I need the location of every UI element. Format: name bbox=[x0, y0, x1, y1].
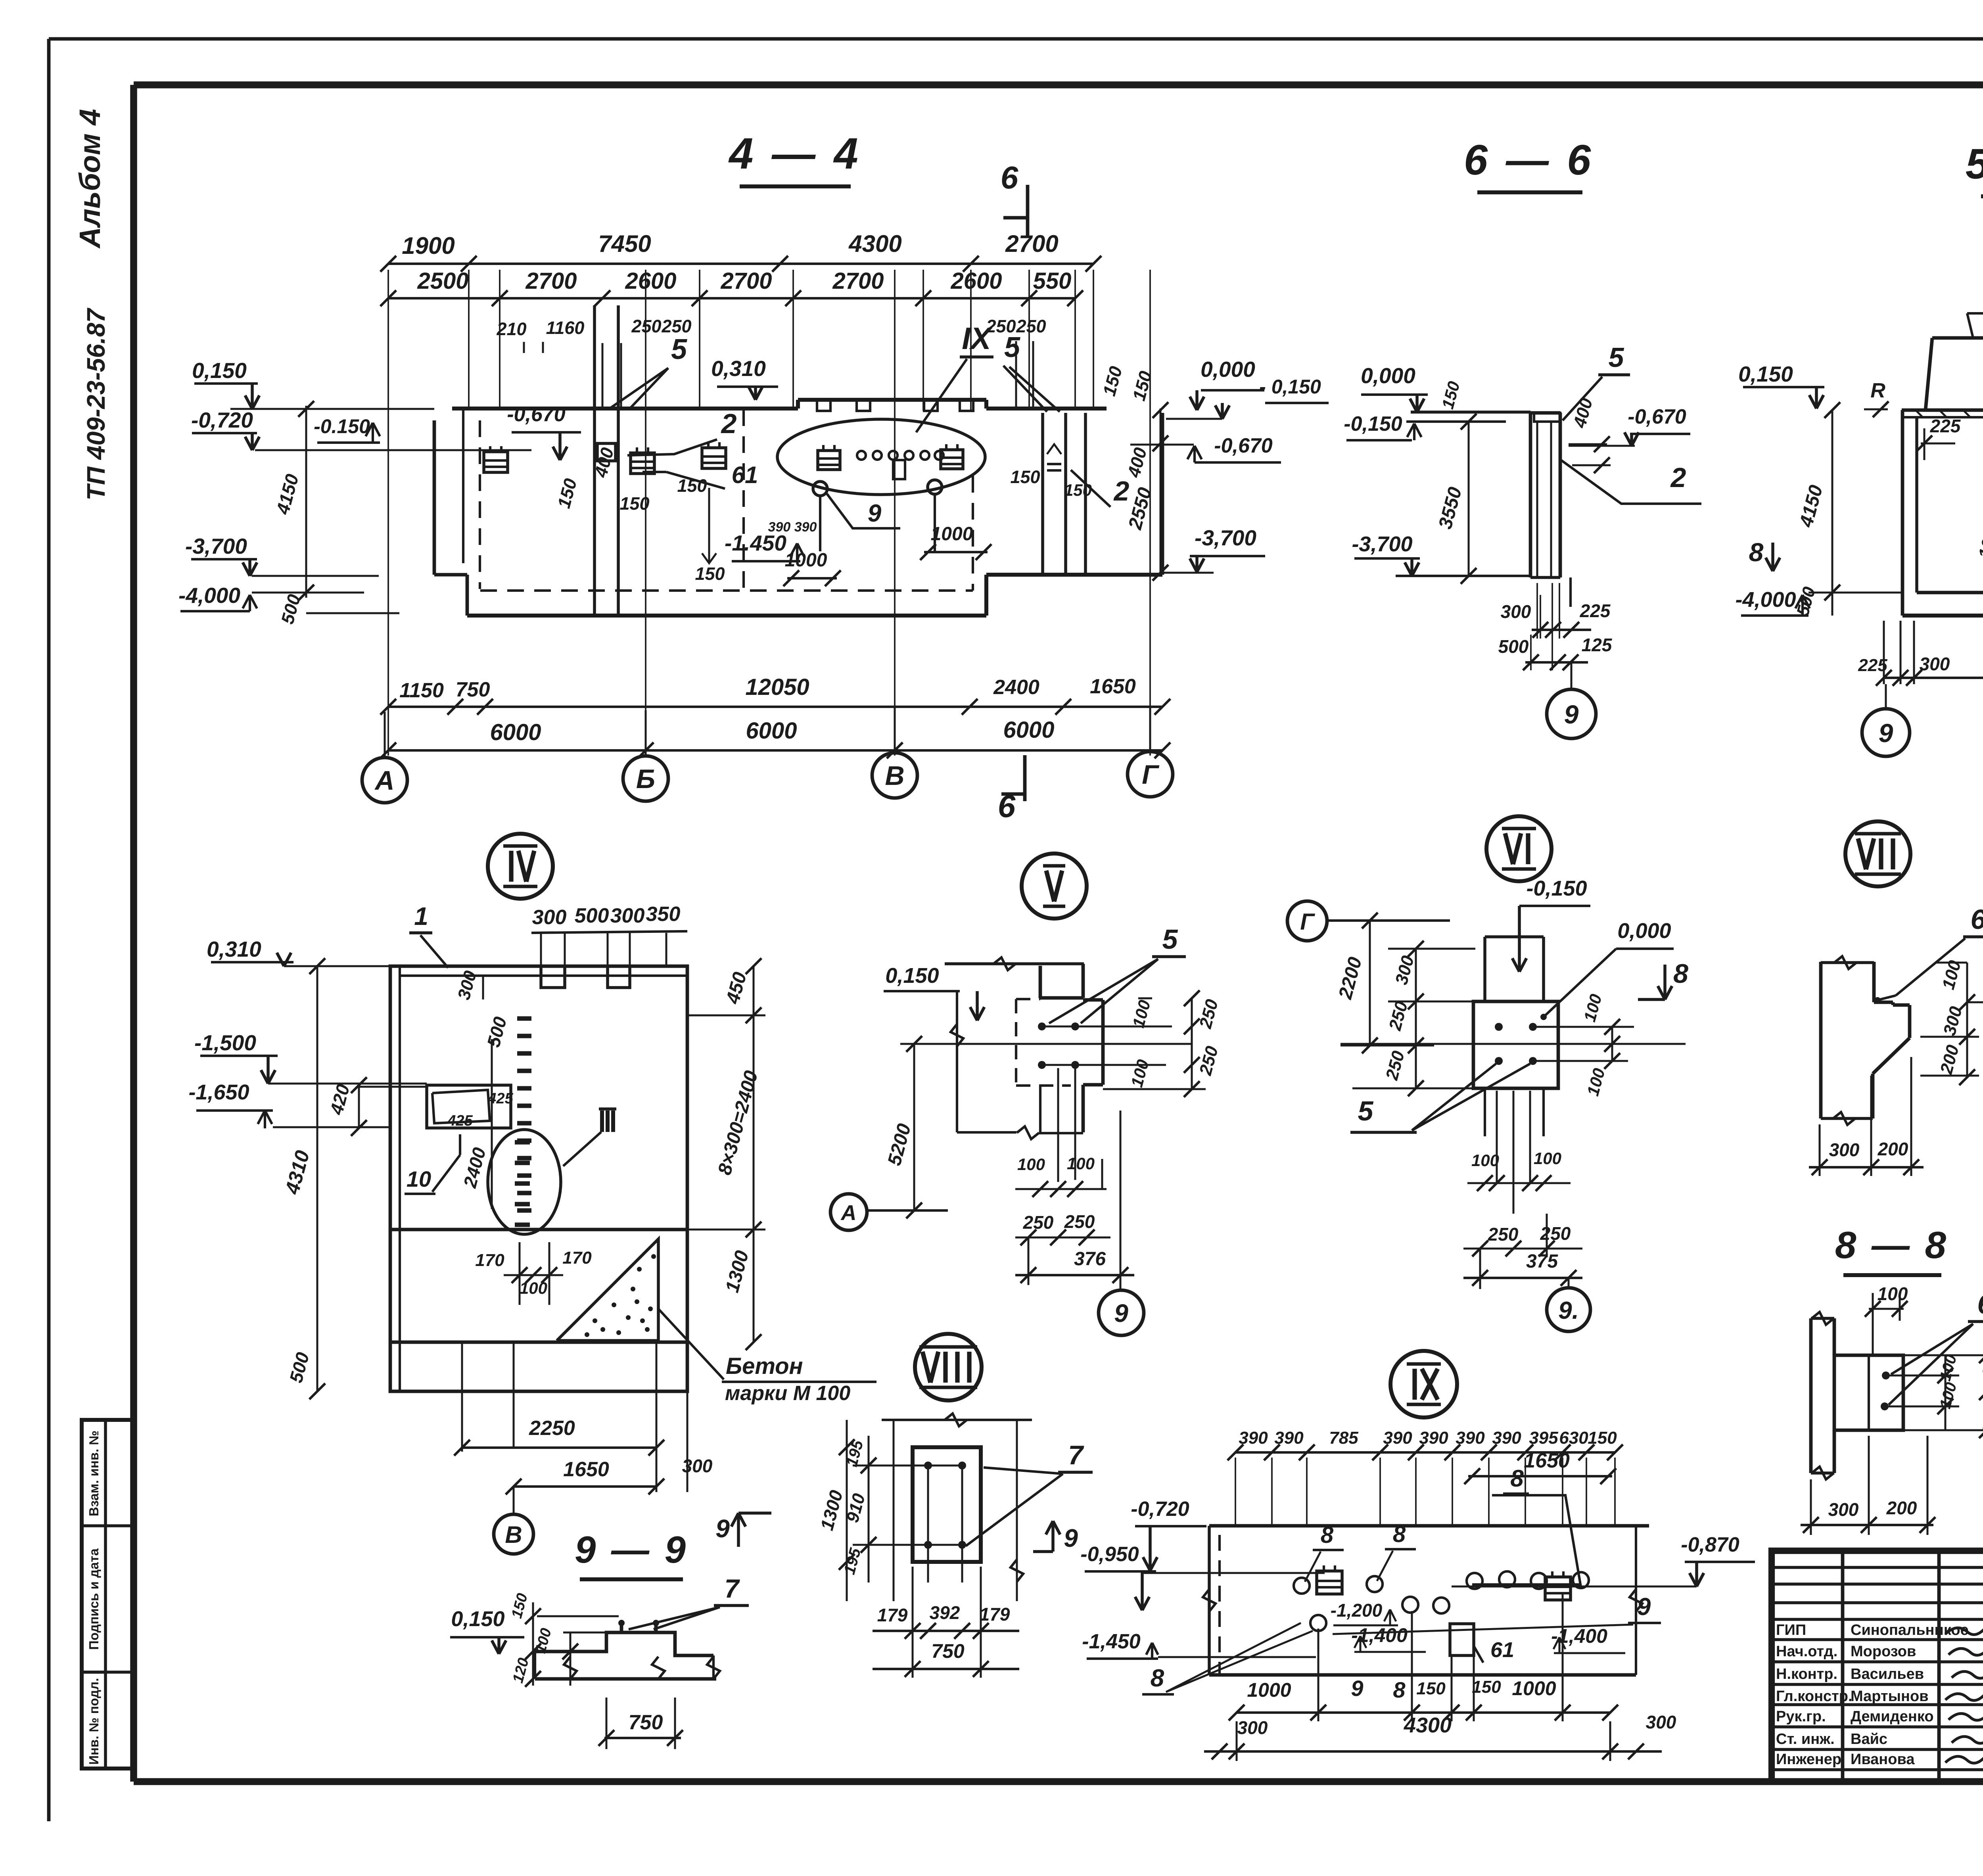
svg-text:6 — 6: 6 — 6 bbox=[1464, 136, 1594, 184]
svg-text:1900: 1900 bbox=[402, 232, 455, 259]
4-4 pit outline bbox=[433, 420, 436, 575]
svg-text:300: 300 bbox=[1501, 601, 1531, 622]
svg-text:-0,670: -0,670 bbox=[1628, 405, 1686, 428]
svg-text:5: 5 bbox=[1609, 342, 1624, 373]
svg-text:1650: 1650 bbox=[563, 1458, 609, 1481]
svg-text:300: 300 bbox=[532, 906, 567, 929]
svg-text:8: 8 bbox=[1321, 1522, 1334, 1548]
svg-text:0,150: 0,150 bbox=[192, 358, 247, 383]
node VI level line bbox=[1341, 1043, 1686, 1045]
svg-text:Бетон: Бетон bbox=[726, 1353, 803, 1379]
svg-text:12050: 12050 bbox=[745, 674, 809, 700]
svg-text:300: 300 bbox=[610, 904, 645, 927]
svg-text:225: 225 bbox=[1930, 416, 1961, 436]
node IX band outline bbox=[1209, 1524, 1649, 1528]
svg-text:-0,150: -0,150 bbox=[1344, 412, 1402, 435]
node VIII bubble bbox=[915, 1334, 982, 1400]
svg-text:-0,670: -0,670 bbox=[1214, 434, 1273, 457]
signatures scribbles bbox=[1945, 1623, 1983, 1635]
svg-text:5: 5 bbox=[1004, 332, 1020, 363]
svg-text:1000: 1000 bbox=[1247, 1679, 1291, 1701]
8-8 wall bar bbox=[1809, 1318, 1813, 1473]
node V dashed square bbox=[1015, 999, 1017, 1086]
svg-text:-0,150: -0,150 bbox=[1526, 877, 1587, 900]
svg-text:-3,700: -3,700 bbox=[1352, 532, 1412, 556]
svg-text:375: 375 bbox=[1526, 1251, 1558, 1272]
axis circle A bbox=[362, 758, 407, 803]
5-5 left wall bbox=[1901, 410, 1904, 616]
svg-text:150: 150 bbox=[677, 476, 707, 496]
svg-text:210: 210 bbox=[496, 319, 526, 339]
svg-text:1160: 1160 bbox=[546, 318, 585, 338]
svg-text:7450: 7450 bbox=[598, 230, 651, 257]
svg-text:0,150: 0,150 bbox=[1738, 362, 1793, 386]
svg-text:ТП 409-23-56.87: ТП 409-23-56.87 bbox=[82, 307, 110, 501]
node IX trapezoid bbox=[1472, 1495, 1580, 1584]
svg-text:-1,200: -1,200 bbox=[1331, 1600, 1383, 1621]
sheet outer border bbox=[49, 37, 1983, 41]
svg-text:1: 1 bbox=[414, 902, 428, 930]
svg-text:-1,500: -1,500 bbox=[194, 1030, 256, 1055]
4-4 dashed inner lines bbox=[479, 420, 481, 589]
svg-text:9: 9 bbox=[1564, 700, 1579, 729]
svg-text:Нач.отд.: Нач.отд. bbox=[1776, 1643, 1837, 1660]
node V top line bbox=[945, 962, 1084, 965]
svg-text:392: 392 bbox=[930, 1602, 960, 1623]
node VII wall section bbox=[1819, 962, 1823, 1118]
4-4 axis extension lines bbox=[387, 270, 389, 756]
svg-text:61: 61 bbox=[1490, 1638, 1514, 1662]
svg-text:Ст. инж.: Ст. инж. bbox=[1776, 1731, 1835, 1747]
svg-text:В: В bbox=[505, 1521, 522, 1548]
svg-text:250: 250 bbox=[1016, 316, 1046, 336]
svg-text:-3,700: -3,700 bbox=[185, 534, 247, 558]
node VI stem below bbox=[1484, 1088, 1486, 1136]
axis circle V under node IV bbox=[494, 1514, 533, 1554]
4-4 anchor symbols bbox=[484, 452, 508, 472]
svg-text:8: 8 bbox=[1510, 1465, 1524, 1492]
svg-text:8: 8 bbox=[1393, 1677, 1406, 1702]
4-4 small anchor at column bbox=[597, 443, 616, 461]
node VI main square bbox=[1473, 1001, 1558, 1088]
node IV bottom slab bbox=[390, 1341, 687, 1344]
svg-text:2250: 2250 bbox=[529, 1417, 575, 1440]
svg-text:-4,000: -4,000 bbox=[178, 583, 240, 608]
node V bubble bbox=[1022, 854, 1087, 919]
svg-text:8: 8 bbox=[1749, 537, 1764, 567]
5-5 bottom slab bbox=[1917, 591, 1983, 595]
node VII bubble bbox=[1845, 821, 1910, 886]
4-4 equipment oval IX region bbox=[777, 419, 985, 495]
svg-text:Инженер: Инженер bbox=[1776, 1751, 1841, 1768]
svg-text:1000: 1000 bbox=[1512, 1677, 1556, 1700]
svg-text:0,000: 0,000 bbox=[1361, 363, 1415, 388]
4-4 dim row 2500 2700 2600 2700 2700 2600 550 bbox=[388, 297, 1075, 299]
node V stem below bbox=[1039, 1086, 1041, 1132]
svg-text:6: 6 bbox=[1971, 904, 1983, 935]
svg-text:150: 150 bbox=[695, 564, 725, 584]
svg-text:100: 100 bbox=[1878, 1283, 1908, 1304]
node IV floor line bbox=[390, 1228, 687, 1231]
node IV rebar dash column bbox=[517, 1016, 531, 1020]
svg-text:9.: 9. bbox=[1558, 1297, 1579, 1324]
svg-text:8: 8 bbox=[1673, 959, 1688, 989]
svg-text:4300: 4300 bbox=[848, 230, 901, 257]
svg-text:100: 100 bbox=[1017, 1155, 1045, 1174]
node VIII frame dim verticals bbox=[893, 1420, 895, 1601]
svg-text:R: R bbox=[1870, 379, 1885, 402]
svg-text:250: 250 bbox=[1488, 1224, 1519, 1245]
svg-text:4300: 4300 bbox=[1404, 1713, 1452, 1737]
svg-text:2: 2 bbox=[721, 408, 737, 439]
svg-text:179: 179 bbox=[980, 1604, 1010, 1625]
svg-text:300: 300 bbox=[1828, 1499, 1859, 1520]
svg-text:7: 7 bbox=[1068, 1440, 1084, 1470]
svg-text:300: 300 bbox=[1829, 1139, 1860, 1160]
5-5 pit top slab bbox=[1902, 409, 1983, 412]
svg-text:0,000: 0,000 bbox=[1201, 357, 1255, 382]
svg-text:8: 8 bbox=[1151, 1665, 1164, 1692]
svg-text:2500: 2500 bbox=[417, 268, 468, 294]
svg-text:61: 61 bbox=[732, 462, 758, 488]
node V right dims bbox=[1042, 1026, 1172, 1028]
svg-text:-0,670: -0,670 bbox=[507, 403, 566, 426]
svg-text:0,310: 0,310 bbox=[711, 356, 766, 381]
8-8 right dims bbox=[1886, 1375, 1959, 1377]
svg-text:-0,720: -0,720 bbox=[1131, 1498, 1189, 1521]
svg-text:5 — 5: 5 — 5 bbox=[1966, 140, 1983, 188]
4-4 sockets on elevated slab bbox=[817, 400, 830, 411]
svg-text:390: 390 bbox=[1274, 1428, 1304, 1448]
node IX small circles bbox=[1294, 1578, 1310, 1594]
svg-text:Г: Г bbox=[1142, 760, 1160, 790]
svg-text:Рук.гр.: Рук.гр. bbox=[1776, 1708, 1826, 1725]
svg-text:-1,450: -1,450 bbox=[1082, 1630, 1141, 1653]
svg-text:250: 250 bbox=[1540, 1223, 1571, 1244]
svg-text:-0.150: -0.150 bbox=[314, 415, 370, 437]
svg-text:0,150: 0,150 bbox=[885, 964, 939, 988]
node VI stub column bbox=[1483, 937, 1486, 1001]
svg-text:-1.450: -1.450 bbox=[725, 531, 786, 555]
svg-text:Морозов: Морозов bbox=[1851, 1643, 1916, 1660]
node IX rect 61 bbox=[1450, 1624, 1474, 1655]
svg-text:750: 750 bbox=[931, 1640, 965, 1662]
node V left boundary bbox=[956, 991, 958, 1132]
svg-text:750: 750 bbox=[456, 678, 490, 701]
svg-text:Инв. № подл.: Инв. № подл. bbox=[86, 1678, 101, 1765]
svg-text:8: 8 bbox=[1393, 1521, 1406, 1547]
node IV top sockets bbox=[541, 966, 565, 988]
svg-text:630: 630 bbox=[1559, 1428, 1588, 1448]
node VI pos circle 9 bbox=[1547, 1288, 1590, 1331]
node IV label III symbol bbox=[600, 1111, 604, 1132]
9-9 reference lines bbox=[537, 1615, 619, 1617]
svg-text:125: 125 bbox=[1582, 635, 1613, 655]
5-5 pos circle 9 bbox=[1862, 709, 1910, 756]
svg-text:170: 170 bbox=[475, 1251, 504, 1270]
svg-text:1150: 1150 bbox=[399, 679, 444, 702]
svg-text:376: 376 bbox=[1074, 1249, 1106, 1270]
svg-text:170: 170 bbox=[562, 1248, 592, 1268]
svg-text:390: 390 bbox=[1456, 1428, 1485, 1448]
svg-text:7: 7 bbox=[725, 1574, 740, 1603]
6-6 pos circle 9 bbox=[1547, 689, 1596, 739]
svg-text:Н.контр.: Н.контр. bbox=[1776, 1666, 1837, 1682]
svg-text:9: 9 bbox=[1114, 1299, 1128, 1327]
svg-text:150: 150 bbox=[1416, 1679, 1446, 1698]
svg-text:200: 200 bbox=[1878, 1139, 1908, 1159]
svg-text:390: 390 bbox=[1239, 1428, 1268, 1448]
svg-text:300: 300 bbox=[1646, 1712, 1676, 1732]
svg-text:150: 150 bbox=[1064, 481, 1092, 499]
svg-text:Вайс: Вайс bbox=[1851, 1731, 1887, 1747]
svg-text:100: 100 bbox=[1067, 1154, 1095, 1173]
4-4 column at G axis bbox=[1041, 413, 1044, 575]
svg-text:Мартынов: Мартынов bbox=[1851, 1688, 1929, 1705]
svg-text:2: 2 bbox=[1670, 462, 1686, 493]
svg-text:0,310: 0,310 bbox=[207, 937, 261, 961]
svg-text:2600: 2600 bbox=[625, 268, 676, 294]
svg-text:300: 300 bbox=[1237, 1717, 1268, 1738]
svg-text:В: В bbox=[885, 761, 904, 791]
node IX top dim row bbox=[1235, 1451, 1615, 1454]
svg-text:785: 785 bbox=[1329, 1428, 1358, 1448]
svg-text:150: 150 bbox=[619, 493, 649, 514]
svg-text:500: 500 bbox=[1498, 636, 1529, 657]
title block table bbox=[1772, 1551, 1983, 1782]
svg-text:100: 100 bbox=[1471, 1151, 1499, 1170]
svg-text:2: 2 bbox=[1113, 476, 1130, 506]
5-5 bottom dims bbox=[1883, 621, 1885, 684]
svg-text:Васильев: Васильев bbox=[1851, 1666, 1924, 1682]
svg-text:А: А bbox=[840, 1201, 857, 1225]
node V axis level line bbox=[900, 1043, 1192, 1045]
node IX bubble bbox=[1390, 1351, 1457, 1418]
svg-text:2700: 2700 bbox=[1005, 230, 1058, 257]
9-9 steps profile bbox=[535, 1632, 713, 1655]
8-8 attachment bbox=[1834, 1355, 1903, 1430]
svg-text:Альбом 4: Альбом 4 bbox=[73, 109, 106, 249]
6-6 column bbox=[1529, 413, 1532, 577]
svg-text:6000: 6000 bbox=[490, 719, 541, 745]
svg-text:-0,950: -0,950 bbox=[1080, 1543, 1139, 1566]
svg-text:9 — 9: 9 — 9 bbox=[575, 1529, 688, 1571]
svg-text:2700: 2700 bbox=[525, 268, 577, 294]
svg-text:1650: 1650 bbox=[1090, 675, 1136, 698]
svg-text:390: 390 bbox=[1492, 1428, 1521, 1448]
svg-text:Г: Г bbox=[1300, 909, 1315, 935]
svg-text:марки М 100: марки М 100 bbox=[725, 1382, 850, 1405]
svg-text:Взам. инв. №: Взам. инв. № bbox=[86, 1431, 101, 1517]
svg-text:9: 9 bbox=[1637, 1593, 1651, 1621]
svg-text:390: 390 bbox=[1419, 1428, 1448, 1448]
9-9 bolts on step bbox=[620, 1621, 623, 1632]
node IV bubble bbox=[488, 834, 553, 899]
4-4 pos 9 circles bbox=[813, 481, 827, 496]
svg-text:-0,870: -0,870 bbox=[1681, 1533, 1739, 1556]
svg-text:-0,720: -0,720 bbox=[191, 408, 253, 432]
axis circle B bbox=[623, 756, 668, 801]
svg-text:А: А bbox=[374, 765, 394, 796]
svg-text:5: 5 bbox=[1162, 924, 1178, 955]
node V pos circle 9 bbox=[1099, 1290, 1144, 1335]
svg-text:150: 150 bbox=[1010, 467, 1040, 487]
svg-text:2700: 2700 bbox=[832, 268, 884, 294]
svg-text:395: 395 bbox=[1529, 1428, 1558, 1448]
svg-text:-3,700: -3,700 bbox=[1195, 526, 1256, 550]
svg-text:9: 9 bbox=[1064, 1524, 1078, 1552]
svg-text:1000: 1000 bbox=[931, 524, 973, 545]
svg-text:6: 6 bbox=[1977, 1289, 1983, 1320]
svg-text:0,000: 0,000 bbox=[1617, 919, 1671, 943]
svg-text:550: 550 bbox=[1033, 268, 1072, 294]
svg-text:225: 225 bbox=[1580, 600, 1611, 621]
4-4 bottom dim row 1150 750 12050 2400 1650 bbox=[388, 706, 1162, 708]
node V solid outline bbox=[1039, 966, 1042, 998]
svg-text:ГИП: ГИП bbox=[1776, 1622, 1806, 1638]
svg-text:0,150: 0,150 bbox=[451, 1607, 504, 1631]
svg-text:150: 150 bbox=[1588, 1428, 1617, 1448]
svg-text:250: 250 bbox=[1064, 1211, 1095, 1232]
svg-text:150: 150 bbox=[1472, 1677, 1501, 1697]
svg-text:200: 200 bbox=[1886, 1498, 1917, 1518]
node IX anchors bbox=[1317, 1571, 1342, 1594]
svg-text:6000: 6000 bbox=[1003, 717, 1054, 743]
node IV bottom dims bbox=[461, 1342, 463, 1452]
svg-text:10: 10 bbox=[407, 1166, 431, 1191]
svg-text:225: 225 bbox=[1858, 656, 1887, 675]
axis circle A left of node V bbox=[830, 1194, 867, 1230]
left stamp column bbox=[82, 1420, 132, 1769]
svg-text:300: 300 bbox=[1920, 654, 1950, 674]
4-4 dim row 1900 7450 4300 2700 bbox=[388, 263, 1093, 265]
node V bolts dots bbox=[1038, 1022, 1046, 1030]
svg-text:425: 425 bbox=[447, 1113, 473, 1129]
svg-text:2600: 2600 bbox=[950, 268, 1002, 294]
svg-text:4 — 4: 4 — 4 bbox=[728, 129, 861, 178]
svg-text:Иванова: Иванова bbox=[1851, 1751, 1915, 1768]
axis circle V bbox=[872, 753, 917, 798]
svg-text:9: 9 bbox=[868, 500, 882, 527]
node IV protruding element bbox=[427, 1085, 511, 1128]
svg-text:-4,000: -4,000 bbox=[1735, 588, 1796, 612]
svg-text:500: 500 bbox=[575, 904, 609, 927]
svg-text:5: 5 bbox=[671, 334, 687, 365]
inner frame bbox=[134, 81, 1983, 88]
svg-text:IX: IX bbox=[962, 321, 993, 356]
svg-text:100: 100 bbox=[520, 1279, 547, 1297]
node VI bubble bbox=[1486, 816, 1551, 881]
8-8 bolt dots bbox=[1882, 1372, 1890, 1379]
svg-text:2400: 2400 bbox=[993, 676, 1039, 699]
6-6 ground lines bbox=[1411, 410, 1530, 414]
svg-text:9: 9 bbox=[1351, 1676, 1363, 1701]
5-5 machine P1 trapezoid bbox=[1925, 338, 1983, 410]
svg-text:350: 350 bbox=[646, 903, 681, 926]
svg-text:179: 179 bbox=[877, 1605, 908, 1625]
node IV hatched triangle concrete bbox=[557, 1239, 658, 1341]
4-4 bottom dim row 6000 6000 6000 bbox=[388, 749, 1162, 752]
svg-text:2700: 2700 bbox=[720, 268, 772, 294]
node IV oval III detail region bbox=[488, 1130, 561, 1234]
svg-text:100: 100 bbox=[1534, 1149, 1561, 1168]
node IX extension verticals bbox=[1235, 1458, 1236, 1527]
node VIII bolt dots bbox=[924, 1462, 932, 1469]
svg-text:- 0,150: - 0,150 bbox=[1259, 376, 1321, 398]
node VI bolt dots bbox=[1495, 1023, 1503, 1031]
svg-text:Подпись и дата: Подпись и дата bbox=[86, 1548, 101, 1650]
svg-text:300: 300 bbox=[682, 1456, 713, 1476]
svg-text:5: 5 bbox=[1358, 1095, 1374, 1126]
4-4 column at B axis bbox=[593, 305, 596, 616]
svg-text:Б: Б bbox=[636, 764, 655, 794]
node VI right dims bbox=[1533, 1026, 1634, 1028]
svg-text:9: 9 bbox=[715, 1514, 730, 1543]
node IV outer box bbox=[390, 966, 687, 1391]
node VIII column section bbox=[913, 1447, 981, 1562]
svg-text:Демиденко: Демиденко bbox=[1851, 1708, 1934, 1725]
4-4 structure top slab bbox=[452, 407, 798, 410]
svg-text:750: 750 bbox=[629, 1711, 663, 1734]
axis circle G bbox=[1128, 752, 1173, 797]
svg-text:-1,650: -1,650 bbox=[188, 1080, 249, 1104]
node VIII lines through bolts bbox=[853, 1465, 962, 1467]
svg-text:Гл.констр.: Гл.констр. bbox=[1776, 1688, 1853, 1705]
axis circle G left of node VI bbox=[1287, 901, 1327, 941]
svg-text:6000: 6000 bbox=[746, 718, 797, 744]
svg-text:390: 390 bbox=[1383, 1428, 1412, 1448]
svg-text:250: 250 bbox=[1023, 1212, 1054, 1233]
svg-text:8 — 8: 8 — 8 bbox=[1835, 1224, 1948, 1266]
svg-text:6: 6 bbox=[1001, 160, 1018, 195]
svg-text:9: 9 bbox=[1879, 718, 1893, 748]
